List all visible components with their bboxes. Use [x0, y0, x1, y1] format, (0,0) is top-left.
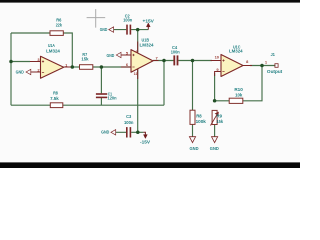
svg-text:10k: 10k — [235, 92, 243, 97]
svg-text:100n: 100n — [171, 50, 180, 55]
svg-text:100n: 100n — [124, 120, 134, 125]
svg-text:15k: 15k — [81, 56, 89, 61]
svg-text:LM324: LM324 — [229, 48, 243, 53]
svg-text:10: 10 — [215, 54, 220, 59]
svg-text:GND: GND — [107, 53, 115, 58]
svg-text:GND: GND — [100, 27, 108, 32]
svg-text:GND: GND — [210, 146, 219, 152]
svg-text:15k: 15k — [217, 119, 224, 124]
svg-text:LM324: LM324 — [46, 48, 60, 53]
svg-text:+15V: +15V — [143, 18, 154, 23]
svg-text:22k: 22k — [56, 22, 63, 27]
svg-text:R8: R8 — [196, 113, 202, 118]
svg-text:R8: R8 — [53, 91, 58, 96]
svg-text:100n: 100n — [123, 18, 132, 23]
svg-text:120n: 120n — [108, 96, 117, 101]
svg-text:U1A: U1A — [48, 43, 56, 48]
svg-text:GND: GND — [190, 146, 199, 152]
svg-text:C3: C3 — [126, 114, 132, 119]
svg-text:LM324: LM324 — [140, 43, 155, 48]
svg-text:GND: GND — [101, 129, 109, 134]
svg-text:-15V: -15V — [140, 140, 150, 145]
svg-text:J1: J1 — [271, 52, 276, 57]
svg-text:Output: Output — [267, 69, 283, 74]
svg-text:R9: R9 — [217, 113, 223, 118]
svg-text:100k: 100k — [196, 119, 207, 124]
svg-text:GND: GND — [16, 70, 24, 75]
svg-text:7.5k: 7.5k — [50, 96, 59, 101]
